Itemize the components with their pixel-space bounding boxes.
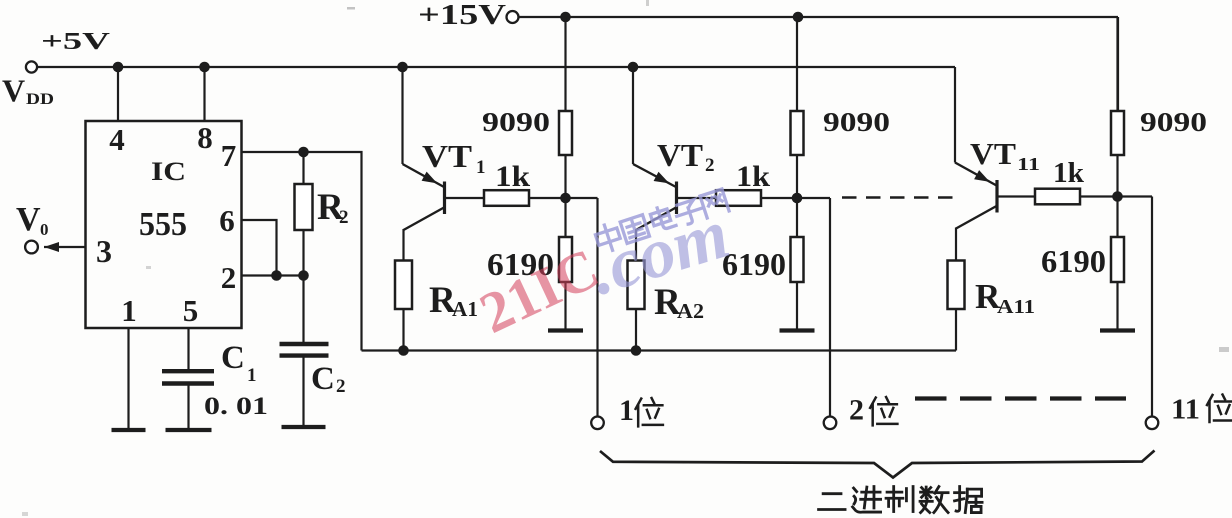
svg-text:8: 8 bbox=[197, 120, 213, 155]
svg-text:+15V: +15V bbox=[418, 0, 506, 31]
svg-text:C: C bbox=[311, 361, 335, 397]
svg-text:6: 6 bbox=[219, 203, 235, 238]
svg-text:A2: A2 bbox=[677, 299, 704, 323]
svg-text:9090: 9090 bbox=[1140, 107, 1207, 137]
svg-text:2: 2 bbox=[336, 376, 346, 397]
svg-text:1k: 1k bbox=[736, 160, 770, 193]
svg-text:5: 5 bbox=[183, 293, 199, 328]
svg-text:2: 2 bbox=[705, 155, 715, 176]
svg-text:3: 3 bbox=[96, 233, 112, 269]
svg-text:C: C bbox=[221, 340, 245, 376]
svg-text:DD: DD bbox=[26, 91, 54, 108]
svg-text:1k: 1k bbox=[1053, 157, 1085, 189]
svg-text:V: V bbox=[16, 201, 41, 238]
svg-text:6190: 6190 bbox=[1041, 243, 1106, 279]
svg-text:A1: A1 bbox=[452, 297, 478, 321]
svg-text:555: 555 bbox=[139, 206, 187, 243]
svg-text:A11: A11 bbox=[997, 296, 1035, 318]
svg-text:2: 2 bbox=[339, 207, 349, 228]
svg-text:IC: IC bbox=[151, 157, 186, 186]
svg-text:2: 2 bbox=[849, 394, 864, 427]
svg-text:2: 2 bbox=[221, 260, 237, 295]
svg-text:1: 1 bbox=[121, 293, 137, 328]
svg-text:1: 1 bbox=[476, 157, 486, 178]
svg-text:4: 4 bbox=[109, 122, 125, 157]
svg-text:V: V bbox=[2, 73, 25, 109]
svg-text:7: 7 bbox=[221, 138, 237, 173]
svg-text:VT: VT bbox=[422, 138, 472, 174]
svg-text:0. 01: 0. 01 bbox=[204, 393, 268, 420]
svg-text:1: 1 bbox=[247, 365, 257, 386]
svg-text:9090: 9090 bbox=[482, 107, 550, 137]
svg-text:11: 11 bbox=[1017, 154, 1040, 174]
svg-text:VT: VT bbox=[657, 137, 703, 173]
svg-text:VT: VT bbox=[970, 136, 1016, 171]
svg-text:1: 1 bbox=[619, 394, 634, 427]
svg-text:11: 11 bbox=[1171, 394, 1200, 426]
svg-text:9090: 9090 bbox=[823, 107, 890, 137]
svg-text:1k: 1k bbox=[495, 160, 530, 193]
svg-text:0: 0 bbox=[40, 220, 49, 239]
svg-text:+5V: +5V bbox=[41, 29, 111, 55]
